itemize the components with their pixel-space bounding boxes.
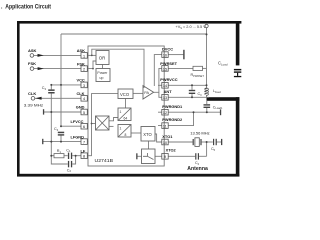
- right pin labels: [160, 46, 183, 152]
- wire: switch box to XTO2 pin: [155, 155, 162, 157]
- supply terminal circle: [205, 24, 208, 27]
- capacitor C4b (XTO2 series): [195, 153, 200, 166]
- antenna loop: upper right bar: [236, 21, 240, 65]
- junction node: C3 bottom / ANT: [191, 96, 193, 98]
- divider 1/8 box: [118, 125, 131, 138]
- pin 10 box: [162, 139, 168, 145]
- junction node: rail A / GND: [50, 111, 52, 113]
- wire: LFGND pin line: [43, 141, 81, 143]
- wire: FSK input line: [34, 68, 81, 70]
- PA amplifier triangle: [143, 86, 154, 99]
- mixer / phase detector box: [96, 116, 110, 130]
- junction node: crystal node N: [206, 141, 208, 143]
- right pin numbers: [163, 54, 167, 160]
- svg-text:11: 11: [163, 125, 167, 129]
- antenna loop: feed bar: [207, 97, 240, 101]
- capacitor CLoad1: [204, 104, 224, 110]
- wire: rail A capacitor branch upper: [50, 85, 52, 90]
- wire: DVCC pin to bar: [168, 54, 183, 56]
- wire: VCO to PA: [133, 92, 143, 94]
- junction node: C3 top: [191, 84, 193, 86]
- pin 12 box: [162, 109, 168, 115]
- VCO box: [118, 89, 133, 99]
- pin stubs left: [87, 85, 88, 142]
- pin 9 box: [162, 154, 168, 160]
- left pin labels: [71, 48, 86, 153]
- svg-text:4: 4: [83, 97, 85, 101]
- svg-text:13: 13: [163, 96, 167, 100]
- wire: PA to ANT pin: [154, 92, 162, 97]
- wire: crystal to node N: [202, 141, 213, 143]
- capacitor C1 (loop filter): [66, 148, 72, 159]
- svg-text:5: 5: [83, 111, 85, 115]
- svg-text:ASK: ASK: [28, 48, 37, 53]
- svg-text:12: 12: [163, 111, 167, 115]
- wire: C4 to LFGND stub: [60, 136, 62, 142]
- svg-text:16: 16: [163, 54, 167, 58]
- svg-text:8: 8: [125, 133, 127, 137]
- wire: DVCC interior to PA: [154, 55, 162, 86]
- wire: C2 branch: [72, 156, 75, 164]
- ground bar (C5): [221, 139, 222, 145]
- svg-text:Antenna: Antenna: [187, 166, 208, 172]
- svg-text:7: 7: [83, 141, 85, 145]
- wire: OR to Power up: [102, 65, 104, 69]
- capacitor C4 (LFVCC decoupling): [54, 127, 64, 136]
- Power up box: [96, 69, 110, 82]
- svg-text:XTO2: XTO2: [166, 147, 177, 152]
- wire: CLoad1 bottom stub: [206, 108, 208, 113]
- junction node: FSK branch: [92, 68, 94, 70]
- OR gate box: [96, 51, 109, 65]
- wire: ASK branch to PA: [92, 49, 144, 88]
- pin 6 box: [81, 123, 87, 129]
- wire: CLK output line: [35, 97, 81, 99]
- ground bar (PWRGND line): [220, 109, 221, 115]
- wire: CLoad1 top stub: [206, 101, 208, 104]
- capacitor CLoad (in antenna loop): [218, 61, 241, 78]
- junction node: ASK branch: [91, 55, 93, 57]
- pin 1 box: [81, 53, 87, 59]
- junction node: supply rail / PWRVCC: [206, 84, 208, 86]
- svg-text:VCC: VCC: [77, 78, 85, 83]
- pin 4 box: [81, 96, 87, 102]
- inductor LFeed: [205, 88, 222, 95]
- antenna loop: lower right bar: [236, 97, 240, 176]
- svg-text:ASK: ASK: [77, 48, 85, 53]
- junction node: control line / mixer: [91, 123, 93, 125]
- svg-text:FSK: FSK: [77, 61, 85, 66]
- wire: C3 lower stub: [191, 94, 193, 97]
- svg-text:10: 10: [163, 141, 167, 145]
- svg-text:13.56 MHz: 13.56 MHz: [190, 131, 209, 136]
- svg-text:15: 15: [163, 67, 167, 71]
- svg-text:3.39 MHz: 3.39 MHz: [24, 103, 43, 108]
- wire: top supply rail: [61, 33, 207, 35]
- junction node: LF / C2: [75, 155, 77, 157]
- junction node: R1 left: [50, 155, 52, 157]
- wire: PWRVCC pin line: [168, 84, 206, 86]
- antenna loop: left bar: [17, 21, 20, 177]
- wire: FSK to OR input: [87, 61, 96, 69]
- IC body U2741B: [88, 46, 164, 166]
- pin 13 box: [162, 95, 168, 101]
- wire: ASK to OR input: [87, 54, 96, 56]
- wire: PWRGND1 line: [168, 111, 220, 113]
- wire: mixer input from divider 64: [109, 118, 118, 121]
- wire: node N riser: [206, 142, 208, 156]
- wire: VCC pin line: [51, 84, 81, 86]
- divider 1/64 box: [118, 108, 131, 121]
- pin 16 box: [162, 52, 168, 58]
- svg-text:8: 8: [83, 155, 85, 159]
- wire: left VCC rail (rail B): [60, 34, 62, 126]
- IC interior wires: [87, 49, 162, 156]
- ground bar (DVCC line): [183, 50, 184, 60]
- svg-text:PWRVCC: PWRVCC: [160, 77, 177, 82]
- svg-text:LFVCC: LFVCC: [71, 119, 84, 124]
- pin 3 box: [81, 82, 87, 88]
- terminal ASK: [28, 48, 44, 57]
- svg-text:Power: Power: [97, 71, 108, 75]
- ground bar (switch box): [136, 153, 137, 159]
- svg-text:64: 64: [124, 116, 128, 120]
- wire: rail A to loop filter bottom: [51, 142, 67, 164]
- wire: PWRSET interior to PA: [159, 68, 162, 92]
- junction node: PWRGND riser: [193, 111, 195, 113]
- svg-text:CLK: CLK: [77, 91, 85, 96]
- capacitor C3b (PWRVCC/ANT): [189, 90, 202, 97]
- junction node: rail B / LFGND: [60, 141, 62, 143]
- pin 11 box: [162, 123, 168, 129]
- wire: LF pin line: [51, 155, 81, 157]
- svg-text:PWRSET: PWRSET: [160, 61, 177, 66]
- junction node: CLoad1 bottom: [206, 111, 208, 113]
- svg-text:up: up: [100, 76, 104, 80]
- svg-text:OR: OR: [99, 56, 106, 61]
- svg-text:. Application Circuit: . Application Circuit: [1, 3, 51, 10]
- pin stubs right: [158, 85, 162, 125]
- junction node: rail B / LFVCC: [60, 125, 62, 127]
- junction node: rail B / VCC: [60, 84, 62, 86]
- wire: LFVCC pin line: [61, 125, 81, 127]
- junction node: supply rail top: [206, 33, 208, 35]
- wire: XTO to switch box: [148, 141, 150, 149]
- svg-text:ANT: ANT: [164, 89, 173, 94]
- pin 15 box: [162, 66, 168, 72]
- resistor R1 (loop filter): [54, 149, 64, 158]
- svg-text:6: 6: [83, 125, 85, 129]
- wire: divider 8 to XTO: [131, 132, 141, 134]
- svg-text:9: 9: [164, 155, 166, 159]
- capacitor C2 (loop filter): [67, 161, 72, 173]
- svg-text:FSK: FSK: [28, 61, 36, 66]
- wire: mixer input stub from XTO: [109, 125, 114, 127]
- wire: control line LF to VCO: [87, 94, 118, 156]
- ground bar (GND line): [43, 109, 44, 114]
- crystal 13.56 MHz: [190, 131, 209, 147]
- wire: ground to switch box: [137, 155, 141, 157]
- pin 8 box: [81, 153, 87, 159]
- wire: XTO2 line to C4b: [168, 155, 195, 157]
- junction node: rail A / VCC: [50, 84, 52, 86]
- svg-text:14: 14: [163, 84, 167, 88]
- pin 5 box: [81, 109, 87, 115]
- junction node: rail A / LFGND: [50, 141, 52, 143]
- right pin boxes: [162, 52, 168, 159]
- wire: supply rail right vertical: [206, 34, 208, 88]
- svg-text:LFGND: LFGND: [71, 134, 85, 139]
- wire: L feed bottom stub: [206, 95, 208, 97]
- terminal FSK: [28, 61, 44, 70]
- svg-text:XTO1: XTO1: [162, 134, 173, 139]
- capacitor CX (VCC decoupling): [42, 86, 55, 93]
- svg-text:1: 1: [120, 127, 122, 131]
- wire: XTO to XTO1 pin: [155, 134, 162, 142]
- wire: PWRGND2 line and riser: [168, 112, 193, 125]
- FSK switch box: [142, 149, 156, 164]
- svg-text:1: 1: [120, 110, 122, 114]
- wire: supply terminal stub: [206, 28, 208, 35]
- svg-text:VCO: VCO: [120, 92, 130, 97]
- svg-text:3: 3: [83, 84, 85, 88]
- svg-text:DVCC: DVCC: [162, 46, 173, 51]
- wire: C4b to riser: [199, 155, 207, 157]
- wire: resistor to supply rail: [203, 67, 207, 69]
- wire: rail A lower: [50, 94, 52, 142]
- left pin boxes: [81, 53, 87, 159]
- svg-text:CLK: CLK: [28, 91, 36, 96]
- svg-text:PWRGND2: PWRGND2: [162, 117, 183, 122]
- wire: C5 to ground bar: [216, 141, 221, 143]
- wire: ANT pin line to feed bar: [168, 96, 209, 98]
- pin 14 box: [162, 83, 168, 89]
- wire: GND pin line: [44, 111, 81, 113]
- terminal CLK: [24, 91, 43, 108]
- wire: VCO to divider 64: [125, 99, 127, 109]
- svg-text:2: 2: [83, 68, 85, 72]
- svg-text:PWRGND1: PWRGND1: [162, 104, 183, 109]
- svg-text:1: 1: [83, 54, 85, 58]
- wire: C3 upper stub: [191, 85, 193, 90]
- antenna loop: top bar: [17, 21, 241, 24]
- ground bar (LFGND line): [42, 139, 43, 144]
- wire: PWRSET pin to resistor: [168, 67, 193, 69]
- svg-text:LF: LF: [81, 148, 86, 153]
- pin 7 box: [81, 139, 87, 145]
- left pin numbers: [83, 54, 85, 158]
- svg-text:GND: GND: [76, 105, 85, 110]
- resistor RPWRSET: [191, 66, 205, 78]
- wire: ASK input line: [34, 54, 81, 56]
- svg-text:U2741B: U2741B: [95, 158, 114, 163]
- antenna loop: bottom bar: [17, 174, 239, 177]
- capacitor C5 (crystal node to ground): [211, 139, 217, 152]
- wire: XTO1 line to crystal: [168, 141, 192, 143]
- svg-text:XTO: XTO: [143, 132, 152, 137]
- wire: mixer output to control line: [92, 123, 96, 125]
- svg-text:PA: PA: [144, 91, 149, 95]
- pin 2 box: [81, 66, 87, 72]
- XTO box: [141, 127, 155, 142]
